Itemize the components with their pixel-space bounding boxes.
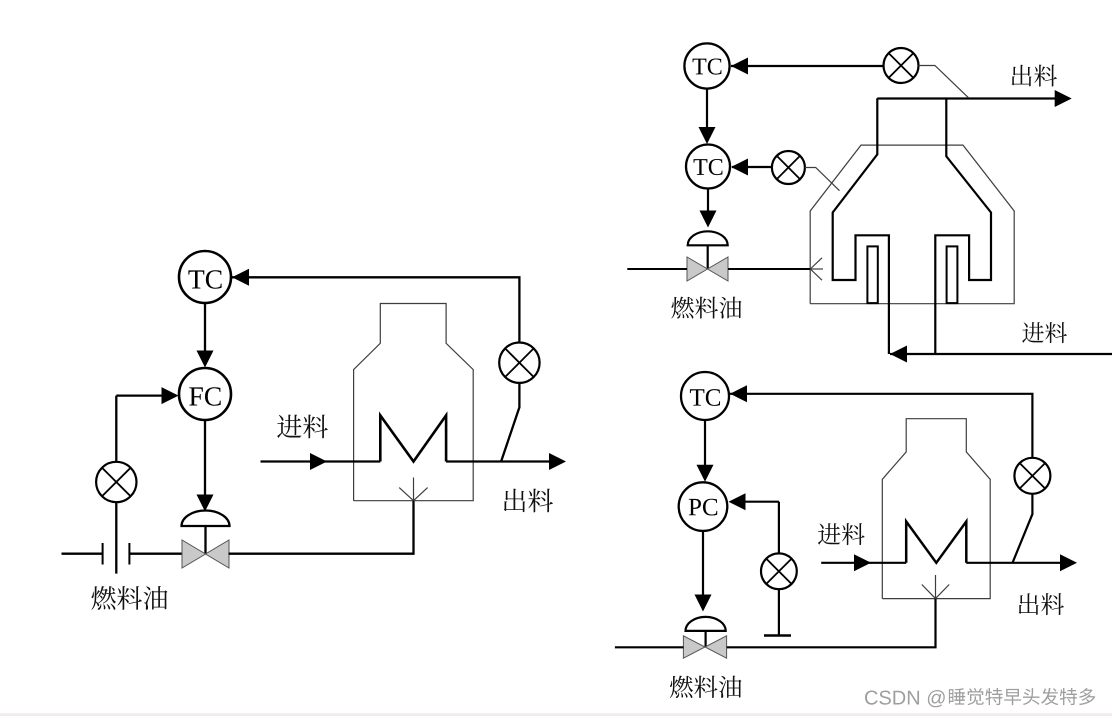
footer rule: [0, 713, 1112, 716]
wire X3 tap slant to header: [919, 66, 969, 98]
label 燃料油 (fuel oil) left: [91, 586, 167, 610]
controller TC3 (slave): [686, 145, 730, 189]
wire fuel pipe V2 left: [627, 268, 687, 270]
arrow outlet F1: [549, 453, 566, 470]
watermark CSDN latin: [865, 690, 945, 707]
arrow into TC3 left: [731, 159, 748, 176]
pressure tap tee bar: [764, 634, 791, 637]
arrow into TC2: [731, 58, 748, 75]
controller PC1 (slave): [679, 482, 728, 531]
orifice plate tick left: [102, 543, 104, 565]
wire TC1 to FC1: [204, 303, 206, 352]
wire fuel pipe V3 left: [615, 646, 684, 648]
furnace F2 outer shell: [810, 145, 1014, 304]
wire fuel pipe V3 to burner F3: [727, 599, 936, 648]
arrow into TC4: [730, 385, 747, 402]
controller TC1: [179, 251, 231, 303]
valve stem V2: [707, 245, 709, 269]
wire fuel pipe mid segment: [129, 553, 183, 555]
heater tube coil M (furnace F3): [906, 522, 966, 563]
wire sensor tap slant F1: [501, 383, 519, 462]
arrow into PC1 left: [729, 493, 746, 510]
sensor symbol X3 (outlet thermocouple): [884, 48, 919, 83]
arrow into FC1 left: [162, 387, 179, 404]
arrow FC1 to valve V1: [204, 420, 206, 496]
wire feed line F2: [890, 353, 1112, 355]
wire flow sensor riser: [115, 396, 117, 462]
wire flow signal into FC1: [116, 394, 163, 396]
controller FC1: [179, 368, 231, 420]
arrow PC1 to valve V3: [702, 531, 704, 596]
wire feed line into furnace F1: [261, 460, 381, 462]
arrow into TC3: [699, 127, 716, 144]
wire outlet line from furnace F1: [446, 460, 549, 462]
wire X2 down to pipe: [115, 502, 117, 573]
actuator diaphragm V2: [688, 231, 728, 245]
wire TC2 to TC3: [706, 89, 708, 128]
wire X4 to TC3 signal: [732, 166, 772, 168]
burner arrow into F2: [810, 258, 823, 280]
label 出料 (outlet) left: [504, 489, 553, 513]
control valve V1: [182, 540, 206, 568]
controller TC4 (master): [681, 372, 729, 420]
actuator diaphragm V3: [686, 617, 726, 631]
sensor symbol X4 (firebox thermocouple): [772, 151, 805, 184]
wire sensor tap slant F3: [1013, 494, 1033, 563]
sensor symbol X2 (flow orifice): [96, 462, 136, 502]
arrow into FC1: [197, 351, 214, 368]
control valve V2: [687, 257, 708, 281]
label 进料 bottom right: [818, 523, 865, 545]
arrow TC3 to valve V2: [707, 189, 709, 213]
wire fuel pipe to burner F1: [229, 501, 414, 554]
wire outlet line from F3: [966, 562, 1060, 564]
wire TC4 to PC1: [704, 420, 706, 466]
wire X4 tap slant into flue: [805, 168, 840, 191]
label 燃料油 bottom right: [670, 676, 742, 698]
arrow feed F1: [310, 453, 327, 470]
arrow outlet F2: [1055, 90, 1072, 107]
wire fuel pipe left segment: [62, 553, 103, 555]
arrow into PC1: [697, 465, 714, 482]
arrow outlet F3: [1060, 554, 1077, 571]
heater tube coil M (furnace F1): [380, 415, 446, 461]
label 进料 top right: [1022, 322, 1067, 343]
wire X1 to TC1 signal: [232, 277, 519, 342]
label 进料 (feed) left: [277, 415, 328, 439]
sensor symbol X1 (thermocouple): [499, 343, 539, 383]
burner mark F1: [399, 478, 427, 501]
wire fuel pipe V2 to burner: [728, 268, 810, 270]
orifice plate tick right: [128, 543, 130, 565]
arrow feed F2 (points left): [890, 346, 907, 363]
burner slot right F2: [947, 246, 958, 303]
wire X5 to TC4 signal: [730, 394, 1032, 458]
controller TC2 (master): [684, 43, 729, 88]
wire outlet header F2: [877, 97, 1055, 99]
furnace F2 right coil wall: [935, 98, 991, 354]
watermark CJK: [949, 688, 1095, 705]
wire X3 to TC2 signal: [731, 65, 884, 67]
burner slot left F2: [867, 246, 877, 303]
wire feed line into F3: [821, 562, 906, 564]
label 出料 top right: [1012, 65, 1057, 87]
label 出料 bottom right: [1019, 593, 1064, 615]
burner mark F3: [922, 575, 949, 599]
wire PC1 tap riser: [778, 502, 780, 554]
furnace F1 outline (left diagram): [354, 304, 474, 501]
furnace F3 outline: [882, 419, 990, 599]
furnace F2 left coil wall: [833, 98, 889, 354]
valve stem V3: [704, 631, 706, 647]
sensor symbol X5 (outlet thermocouple): [1014, 458, 1050, 494]
valve stem V1: [204, 526, 206, 554]
actuator diaphragm V1: [182, 510, 230, 526]
wire pressure signal into PC1: [745, 501, 779, 503]
arrow feed F3: [854, 554, 871, 571]
wire X6 down: [778, 589, 780, 635]
sensor symbol X6 (pressure tap): [761, 553, 797, 589]
control valve V3: [683, 636, 705, 658]
arrow into TC1: [232, 269, 249, 286]
label 燃料油 top right: [671, 297, 741, 319]
